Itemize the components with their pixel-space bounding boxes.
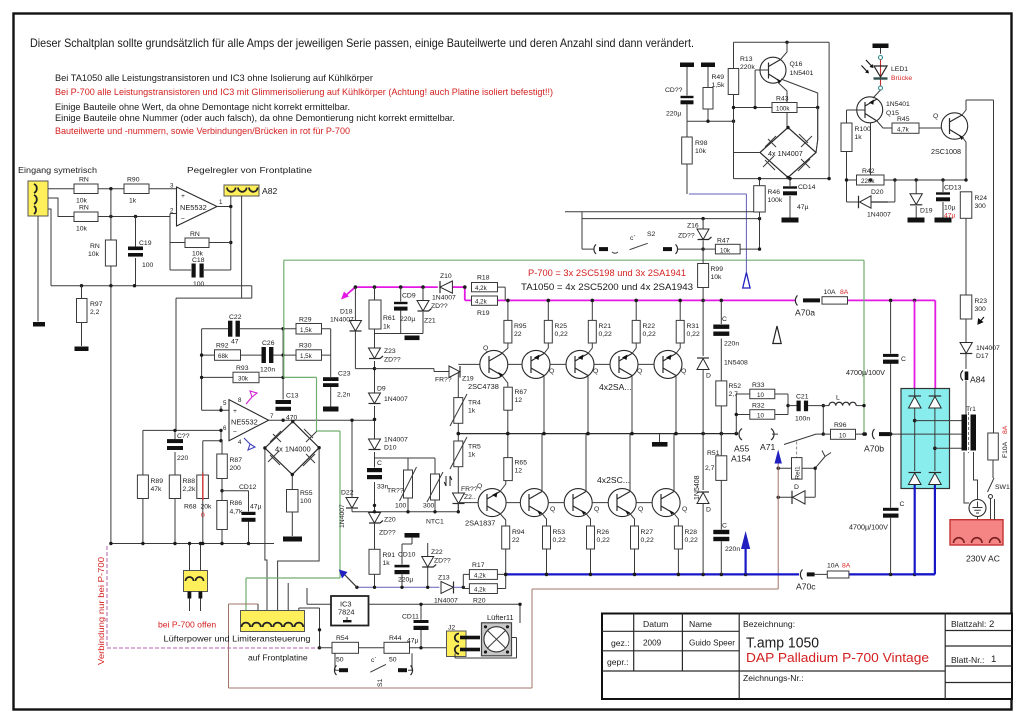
svg-text:C23: C23 bbox=[338, 371, 351, 378]
output transistor Q (2SA #3) bbox=[610, 350, 638, 378]
svg-text:R43: R43 bbox=[776, 96, 789, 103]
svg-text:10A: 10A bbox=[827, 563, 840, 570]
trimmer TR5 bbox=[450, 434, 481, 493]
svg-text:D: D bbox=[794, 484, 799, 491]
svg-text:C: C bbox=[901, 356, 906, 363]
svg-text:C??: C?? bbox=[177, 433, 190, 440]
svg-text:R30: R30 bbox=[299, 343, 312, 350]
svg-text:+: + bbox=[233, 408, 237, 415]
resistor R87 bbox=[217, 441, 242, 501]
svg-text:1k: 1k bbox=[383, 324, 391, 331]
emitter resistor R95 bbox=[502, 300, 527, 353]
wire input to RN1 bbox=[38, 189, 74, 322]
output transistor Q (2SA #2) bbox=[566, 350, 594, 378]
violet link wire bbox=[107, 546, 319, 648]
capacitor C 220n (lower) bbox=[713, 523, 740, 575]
driver Q 2SC4738 bbox=[480, 350, 508, 378]
supply rail bars top bbox=[680, 63, 694, 68]
svg-text:R28: R28 bbox=[685, 529, 698, 536]
svg-text:ZD??: ZD?? bbox=[379, 530, 396, 537]
capacitor C13 bbox=[276, 393, 299, 422]
wire row A (C22/R29) bbox=[202, 328, 331, 330]
relay Rel1 bbox=[777, 451, 832, 498]
svg-text:1N5408: 1N5408 bbox=[724, 360, 748, 367]
svg-text:2,2k: 2,2k bbox=[183, 486, 196, 493]
bias chain: diode Z19/FR?? bbox=[375, 366, 474, 384]
rail bar under CD9 bbox=[375, 333, 424, 335]
svg-text:A70a: A70a bbox=[795, 308, 815, 318]
ground on mid rail bbox=[659, 434, 661, 442]
svg-text:0,22: 0,22 bbox=[599, 331, 612, 338]
svg-text:22: 22 bbox=[514, 331, 522, 338]
svg-text:Z2..: Z2.. bbox=[464, 494, 476, 501]
svg-text:4x2SA...: 4x2SA... bbox=[599, 382, 631, 392]
svg-text:R52: R52 bbox=[729, 383, 742, 390]
svg-text:0,22: 0,22 bbox=[597, 537, 610, 544]
svg-text:1N5401: 1N5401 bbox=[886, 101, 910, 108]
svg-text:RN: RN bbox=[90, 243, 100, 250]
svg-text:R29: R29 bbox=[299, 317, 312, 324]
svg-text:R97: R97 bbox=[90, 301, 103, 308]
svg-text:R27: R27 bbox=[641, 529, 654, 536]
diode FR?? Z21 (lower) bbox=[453, 486, 478, 512]
svg-text:SW1: SW1 bbox=[995, 484, 1010, 491]
svg-text:2: 2 bbox=[989, 619, 994, 630]
resistor R23 bbox=[960, 295, 987, 342]
svg-text:Guido Speer: Guido Speer bbox=[689, 639, 735, 648]
magenta feeds to bridge bbox=[915, 300, 936, 389]
resistor R13 bbox=[728, 42, 755, 178]
ground below R97 bbox=[75, 347, 89, 352]
svg-text:300: 300 bbox=[423, 503, 435, 510]
svg-text:R31: R31 bbox=[687, 323, 700, 330]
svg-text:230V AC: 230V AC bbox=[966, 554, 1000, 564]
svg-text:1N4007: 1N4007 bbox=[330, 317, 354, 324]
svg-text:CD13: CD13 bbox=[944, 185, 962, 192]
svg-text:gepr.:: gepr.: bbox=[607, 657, 629, 667]
resistor R61 bbox=[369, 287, 396, 333]
magenta rail upper row bbox=[355, 287, 935, 300]
svg-text:1k: 1k bbox=[855, 134, 863, 141]
svg-text:A84: A84 bbox=[970, 375, 986, 385]
svg-text:0,22: 0,22 bbox=[555, 331, 568, 338]
svg-text:0,22: 0,22 bbox=[685, 537, 698, 544]
svg-text:R18: R18 bbox=[477, 275, 490, 282]
svg-text:L: L bbox=[836, 395, 840, 402]
svg-text:1N4007: 1N4007 bbox=[434, 598, 458, 605]
ground below CD14 bbox=[782, 218, 799, 223]
svg-text:Dieser Schaltplan sollte grund: Dieser Schaltplan sollte grundsätzlich f… bbox=[30, 36, 694, 50]
svg-text:+: + bbox=[181, 193, 185, 200]
ground below R55 bbox=[283, 537, 302, 542]
svg-text:Einige Bauteile ohne Nummer (o: Einige Bauteile ohne Nummer (oder auch f… bbox=[55, 113, 455, 124]
svg-text:1,5k: 1,5k bbox=[300, 353, 313, 360]
svg-text:Zeichnungs-Nr.:: Zeichnungs-Nr.: bbox=[743, 673, 804, 683]
svg-text:A82: A82 bbox=[262, 186, 278, 196]
diode D19 bbox=[910, 180, 933, 218]
resistor RN feedback bbox=[170, 231, 231, 258]
svg-text:Name: Name bbox=[689, 619, 712, 629]
bridge output rows to Tr1 bbox=[890, 421, 962, 449]
svg-text:DAP Palladium P-700 Vintage: DAP Palladium P-700 Vintage bbox=[746, 650, 929, 665]
wire op-amp1 output to A82 bbox=[217, 196, 231, 270]
resistor R91 bbox=[369, 523, 395, 587]
black open flag under A70a bbox=[773, 326, 781, 344]
zener Z20 bbox=[369, 513, 396, 537]
svg-text:−: − bbox=[181, 216, 185, 223]
diode D20 bbox=[847, 180, 895, 219]
resistor R96 bbox=[823, 422, 867, 440]
svg-text:220k: 220k bbox=[861, 178, 875, 185]
capacitor CD14 bbox=[783, 179, 816, 218]
svg-text:10µ: 10µ bbox=[944, 205, 956, 212]
svg-text:Q: Q bbox=[681, 368, 686, 375]
output transistor Q (2SC #4) bbox=[652, 489, 680, 517]
svg-text:2SC1008: 2SC1008 bbox=[931, 147, 961, 156]
svg-text:CD??: CD?? bbox=[665, 87, 683, 94]
svg-text:120n: 120n bbox=[260, 367, 275, 374]
svg-text:C13: C13 bbox=[286, 393, 299, 400]
emitter resistor R27 bbox=[630, 514, 654, 575]
svg-text:R20: R20 bbox=[473, 598, 486, 605]
svg-text:Q: Q bbox=[637, 368, 642, 375]
blue arrow up (speaker feed) bbox=[741, 531, 750, 549]
svg-text:NTC1: NTC1 bbox=[426, 519, 444, 526]
transistor Q 2SC1008 bbox=[931, 100, 994, 180]
svg-text:R93: R93 bbox=[236, 365, 249, 372]
diode D (relay clamp) bbox=[777, 484, 816, 504]
svg-text:D19: D19 bbox=[920, 208, 933, 215]
op-amp U2 NE5532 bbox=[223, 397, 274, 446]
svg-text:Pegelregler von Frontplatine: Pegelregler von Frontplatine bbox=[187, 165, 312, 175]
svg-text:−: − bbox=[233, 429, 237, 436]
wire right column x283 bbox=[282, 329, 284, 400]
svg-text:4,7k: 4,7k bbox=[230, 509, 243, 516]
resistor R99 bbox=[698, 249, 724, 300]
svg-text:Q: Q bbox=[594, 506, 599, 513]
svg-text:7: 7 bbox=[270, 413, 274, 420]
svg-text:Lüfterpower und Limiteransteue: Lüfterpower und Limiteransteuerung bbox=[164, 634, 311, 644]
resistor R55 bbox=[287, 475, 313, 537]
wire bridge left vertex down to connector bbox=[265, 448, 267, 611]
svg-text:R87: R87 bbox=[230, 457, 243, 464]
svg-text:S1: S1 bbox=[377, 678, 384, 687]
resistor R17 bbox=[463, 562, 504, 587]
resistor R19 bbox=[472, 296, 498, 317]
svg-text:R23: R23 bbox=[975, 298, 988, 305]
S2 standby loop bbox=[565, 212, 761, 254]
svg-text:R42: R42 bbox=[862, 168, 875, 175]
svg-text:0,22: 0,22 bbox=[641, 537, 654, 544]
svg-text:3: 3 bbox=[170, 183, 174, 190]
transistor Q15 bbox=[847, 97, 911, 180]
resistor R49 bbox=[703, 67, 725, 121]
svg-text:220n: 220n bbox=[725, 546, 740, 553]
resistor R98 bbox=[682, 121, 708, 194]
svg-text:1k: 1k bbox=[468, 408, 476, 415]
emitter resistor R28 bbox=[674, 514, 698, 575]
svg-text:Q: Q bbox=[933, 113, 938, 120]
green wire right vertical bbox=[863, 260, 865, 434]
diode D22 bbox=[339, 419, 358, 529]
svg-text:R86: R86 bbox=[230, 500, 243, 507]
thin violet-blue wire row bbox=[357, 586, 440, 588]
svg-text:CD14: CD14 bbox=[798, 184, 816, 191]
svg-text:20k: 20k bbox=[201, 504, 213, 511]
svg-text:50: 50 bbox=[336, 657, 344, 664]
capacitor C21 bbox=[788, 394, 810, 423]
input connector XLR bbox=[28, 181, 48, 216]
green top edge wire bbox=[284, 259, 864, 261]
svg-text:R67: R67 bbox=[515, 389, 528, 396]
svg-text:gez.:: gez.: bbox=[611, 638, 630, 648]
svg-text:bei P-700 offen: bei P-700 offen bbox=[158, 620, 216, 630]
blue arrow to green node bbox=[345, 575, 357, 588]
output transistors bottom row 4x2SC bbox=[465, 475, 687, 528]
svg-text:10k: 10k bbox=[76, 226, 88, 233]
svg-text:c´: c´ bbox=[630, 235, 636, 242]
svg-text:A70c: A70c bbox=[796, 582, 816, 592]
svg-text:R22: R22 bbox=[643, 323, 656, 330]
connector A82 bbox=[224, 185, 278, 196]
capacitor CD13 bbox=[936, 180, 962, 220]
output transistor Q (2SC #2) bbox=[564, 489, 592, 517]
svg-text:P-700 = 3x 2SC5198 und 3x 2SA1: P-700 = 3x 2SC5198 und 3x 2SA1941 bbox=[528, 268, 686, 278]
svg-text:R96: R96 bbox=[834, 422, 847, 429]
zener Z21 (upper) bbox=[417, 287, 448, 333]
connector A70c with fuse bbox=[796, 563, 851, 592]
svg-text:auf Frontplatine: auf Frontplatine bbox=[248, 653, 308, 663]
svg-text:1N5401: 1N5401 bbox=[790, 70, 814, 77]
svg-text:R68: R68 bbox=[184, 504, 197, 511]
lower left bus bbox=[111, 543, 274, 545]
svg-text:4,2k: 4,2k bbox=[475, 299, 488, 306]
svg-text:100: 100 bbox=[300, 498, 312, 505]
svg-text:R47: R47 bbox=[717, 238, 730, 245]
svg-text:J2: J2 bbox=[448, 625, 455, 632]
svg-text:R95: R95 bbox=[514, 323, 527, 330]
svg-text:Z20: Z20 bbox=[384, 517, 396, 524]
svg-text:Einige Bauteile ohne Wert, da: Einige Bauteile ohne Wert, da ohne Demon… bbox=[55, 102, 350, 113]
svg-text:C: C bbox=[722, 316, 727, 323]
svg-text:Tr1: Tr1 bbox=[966, 406, 976, 413]
svg-text:C22: C22 bbox=[229, 314, 242, 321]
node dots input stage bbox=[109, 187, 112, 190]
svg-text:C: C bbox=[722, 523, 727, 530]
svg-text:100k: 100k bbox=[768, 197, 783, 204]
svg-text:ZD??: ZD?? bbox=[431, 303, 448, 310]
diode D 1N5408 (lower) bbox=[694, 434, 711, 575]
svg-text:R61: R61 bbox=[383, 315, 396, 322]
svg-text:2,2n: 2,2n bbox=[337, 392, 350, 399]
op-amp U1 NE5532 bbox=[170, 183, 223, 227]
resistor R67 bbox=[504, 387, 527, 433]
trimmer TR?? 100 bbox=[375, 458, 436, 512]
svg-text:R94: R94 bbox=[512, 529, 525, 536]
svg-text:A55: A55 bbox=[734, 444, 750, 454]
bridge rectifier 4x 1N4007 bbox=[734, 108, 818, 180]
svg-text:220µ: 220µ bbox=[398, 577, 413, 584]
svg-text:10k: 10k bbox=[711, 274, 723, 281]
svg-text:R24: R24 bbox=[975, 195, 988, 202]
svg-text:1,5k: 1,5k bbox=[712, 82, 725, 89]
resistor RN (upper input) bbox=[74, 177, 98, 205]
transformer Tr1 bbox=[962, 406, 977, 453]
earth symbol circle bbox=[964, 452, 986, 520]
svg-text:4700µ/100V: 4700µ/100V bbox=[846, 368, 885, 377]
capacitor CD11 bbox=[402, 614, 429, 648]
svg-text:D22: D22 bbox=[341, 490, 354, 497]
svg-text:1N4007: 1N4007 bbox=[384, 437, 408, 444]
svg-text:R17: R17 bbox=[472, 562, 485, 569]
blue negative rail (thick) bbox=[504, 573, 935, 575]
diode Z10 bbox=[432, 273, 456, 302]
svg-text:Verbindung nur bei P-700: Verbindung nur bei P-700 bbox=[96, 557, 106, 665]
svg-text:220k: 220k bbox=[740, 64, 755, 71]
mains bridge rectifier (cyan) bbox=[901, 389, 950, 489]
emitter resistor R94 bbox=[500, 514, 525, 575]
svg-text:CD11: CD11 bbox=[402, 614, 419, 621]
svg-text:1N4007: 1N4007 bbox=[432, 295, 456, 302]
svg-text:CD9: CD9 bbox=[402, 293, 416, 300]
svg-text:TR5: TR5 bbox=[468, 444, 481, 451]
svg-text:A70b: A70b bbox=[864, 444, 884, 454]
svg-text:50: 50 bbox=[389, 657, 397, 664]
svg-text:300: 300 bbox=[975, 203, 987, 210]
svg-text:100: 100 bbox=[193, 281, 205, 288]
svg-text:2SA1837: 2SA1837 bbox=[465, 519, 495, 528]
wire RN column down to lower bus bbox=[110, 286, 112, 544]
LED1 bbox=[862, 56, 913, 99]
resistor R44 bbox=[384, 635, 447, 664]
svg-text:C18: C18 bbox=[192, 257, 205, 264]
svg-text:R44: R44 bbox=[389, 635, 402, 642]
svg-text:Bauteilwerte und -nummern, sow: Bauteilwerte und -nummern, sowie Verbind… bbox=[55, 126, 350, 137]
resistor R97 bbox=[77, 286, 103, 346]
resistor R32 bbox=[736, 394, 788, 434]
svg-text:R46: R46 bbox=[768, 189, 781, 196]
svg-text:2,7: 2,7 bbox=[705, 465, 715, 472]
switch SW1 bbox=[988, 478, 1010, 520]
svg-text:0,22: 0,22 bbox=[643, 331, 656, 338]
capacitor C26 bbox=[260, 340, 275, 374]
zener Z22 bbox=[422, 543, 451, 587]
svg-text:C: C bbox=[377, 460, 382, 467]
svg-text:D18: D18 bbox=[340, 309, 353, 316]
svg-text:1N4007: 1N4007 bbox=[339, 504, 346, 528]
svg-text:Z22: Z22 bbox=[431, 549, 443, 556]
switch S1 loop bbox=[334, 653, 412, 687]
diode D18 bbox=[330, 287, 375, 369]
svg-text:D10: D10 bbox=[384, 445, 397, 452]
resistor R45 bbox=[892, 116, 942, 134]
wire C23 column bbox=[330, 329, 332, 407]
svg-text:Q: Q bbox=[477, 483, 482, 490]
svg-text:D: D bbox=[706, 373, 711, 380]
svg-text:Datum: Datum bbox=[643, 619, 668, 629]
svg-text:Brücke: Brücke bbox=[891, 75, 912, 82]
svg-text:D20: D20 bbox=[871, 189, 884, 196]
svg-text:100: 100 bbox=[142, 262, 154, 269]
svg-text:Q: Q bbox=[682, 506, 687, 513]
base bus top row bbox=[458, 363, 654, 365]
blue open flag (Z16 line) bbox=[743, 273, 750, 289]
svg-text:Q: Q bbox=[638, 506, 643, 513]
svg-text:Q: Q bbox=[593, 368, 598, 375]
wire row C (R93) bbox=[202, 376, 284, 378]
trimmer 300 (NTC) bbox=[423, 458, 452, 526]
svg-text:4,7k: 4,7k bbox=[897, 127, 910, 134]
svg-text:ZD??: ZD?? bbox=[678, 233, 695, 240]
fan Lüfter11 bbox=[455, 613, 517, 658]
svg-text:30k: 30k bbox=[238, 375, 249, 382]
svg-text:R89: R89 bbox=[151, 478, 164, 485]
svg-text:ZD??: ZD?? bbox=[434, 558, 451, 565]
svg-text:1k: 1k bbox=[383, 560, 391, 567]
svg-text:T.amp 1050: T.amp 1050 bbox=[746, 635, 819, 652]
rail bar below C23 bbox=[323, 407, 339, 412]
relay switch after A71 bbox=[772, 406, 823, 445]
svg-text:100: 100 bbox=[395, 503, 407, 510]
emitter resistor R31 bbox=[676, 300, 700, 353]
main center column x374 bbox=[374, 334, 376, 512]
svg-text:R91: R91 bbox=[383, 552, 396, 559]
connector J2 bbox=[447, 625, 481, 657]
svg-text:TR4: TR4 bbox=[468, 400, 481, 407]
svg-text:8: 8 bbox=[238, 397, 242, 404]
wire row B (R92/C26/R30) bbox=[202, 354, 331, 356]
resistor R47 bbox=[703, 238, 740, 255]
svg-text:R25: R25 bbox=[555, 323, 568, 330]
driver Q 2SA1837 bbox=[478, 489, 506, 517]
svg-text:4,2k: 4,2k bbox=[474, 573, 487, 580]
svg-text:RN: RN bbox=[79, 177, 89, 184]
svg-text:F10A: F10A bbox=[1002, 441, 1009, 458]
svg-text:5: 5 bbox=[223, 400, 227, 407]
svg-text:R33: R33 bbox=[752, 382, 765, 389]
svg-text:47: 47 bbox=[231, 339, 239, 346]
svg-text:R19: R19 bbox=[477, 310, 490, 317]
svg-text:R54: R54 bbox=[336, 635, 349, 642]
svg-text:Eingang symetrisch: Eingang symetrisch bbox=[18, 165, 97, 175]
svg-text:8A: 8A bbox=[842, 563, 851, 570]
svg-text:D: D bbox=[706, 507, 711, 514]
resistor R65 bbox=[504, 434, 527, 481]
bias bottom row wire bbox=[352, 511, 458, 513]
capacitor CD12 bbox=[222, 484, 262, 544]
blue arrow at A71 branch bbox=[775, 450, 782, 464]
svg-text:1: 1 bbox=[219, 199, 223, 206]
top supply wire bbox=[734, 41, 830, 43]
svg-text:C19: C19 bbox=[139, 240, 152, 247]
svg-text:RN: RN bbox=[190, 231, 200, 238]
resistor R52 bbox=[716, 381, 741, 434]
svg-text:R49: R49 bbox=[712, 74, 725, 81]
brown wire loop bbox=[229, 464, 779, 689]
diode D 1N5408 (upper) bbox=[697, 300, 748, 433]
resistor R93 bbox=[233, 365, 259, 383]
regulator IC3 7824 bbox=[331, 596, 369, 626]
svg-text:R92: R92 bbox=[216, 343, 229, 350]
svg-text:200: 200 bbox=[230, 465, 242, 472]
svg-text:0: 0 bbox=[201, 512, 205, 519]
svg-text:1,5k: 1,5k bbox=[300, 327, 313, 334]
svg-text:1k: 1k bbox=[129, 198, 137, 205]
svg-text:47µ: 47µ bbox=[250, 504, 262, 511]
svg-text:R55: R55 bbox=[300, 490, 313, 497]
svg-text:220n: 220n bbox=[724, 341, 739, 348]
svg-text:Bezeichnung:: Bezeichnung: bbox=[743, 619, 795, 629]
